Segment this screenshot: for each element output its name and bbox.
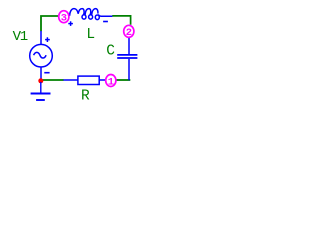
C top lead xyxy=(128,38,130,54)
L arch 4 xyxy=(92,9,98,15)
wire junction dot to resistor xyxy=(41,79,64,81)
capacitor C xyxy=(117,38,137,81)
V1 circle body xyxy=(30,44,53,67)
V1 bottom lead xyxy=(40,67,42,79)
svg-text:1: 1 xyxy=(108,76,114,88)
R right lead xyxy=(100,79,106,81)
ground xyxy=(31,82,51,100)
svg-text:R: R xyxy=(81,88,90,104)
wire inductor lead to node 2 xyxy=(112,16,130,25)
L bottom loop 3 xyxy=(95,15,99,20)
svg-text:3: 3 xyxy=(61,13,67,25)
ground stem xyxy=(40,82,42,93)
svg-text:C: C xyxy=(106,44,115,60)
voltage source V1 xyxy=(30,31,53,79)
V1 plus mark xyxy=(45,39,50,41)
junction dot xyxy=(38,78,43,83)
svg-text:2: 2 xyxy=(126,27,132,39)
L bottom loop 1 xyxy=(82,15,86,19)
L plus mark xyxy=(68,23,73,25)
L arch 3 xyxy=(85,9,91,15)
L arch 2 xyxy=(78,9,84,15)
wire V1 top to node 3 xyxy=(41,16,58,31)
node 3 xyxy=(59,11,69,25)
L entry arch xyxy=(70,9,79,16)
node 1 xyxy=(106,75,116,89)
C bottom lead xyxy=(128,59,130,81)
V1 sine symbol xyxy=(34,52,47,58)
R left lead xyxy=(63,79,77,81)
inductor L xyxy=(68,9,112,26)
C bottom plate xyxy=(117,57,137,59)
wire node 1 to capacitor branch corner xyxy=(116,79,131,81)
svg-text:V1: V1 xyxy=(13,29,28,45)
svg-text:L: L xyxy=(86,27,95,43)
L exit lead xyxy=(98,14,112,16)
L bottom loop 2 xyxy=(89,15,93,19)
node 2 xyxy=(124,25,134,39)
R body box xyxy=(78,76,99,84)
ground bar 1 xyxy=(31,93,51,95)
ground bar 2 xyxy=(36,99,45,101)
C top plate xyxy=(117,54,137,56)
V1 top lead xyxy=(40,31,42,45)
V1 minus mark xyxy=(44,72,49,74)
L minus mark xyxy=(103,21,108,23)
resistor R xyxy=(63,76,105,84)
